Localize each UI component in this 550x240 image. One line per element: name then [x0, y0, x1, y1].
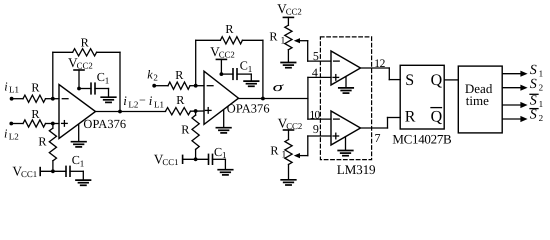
ground [216, 128, 231, 133]
junction [261, 97, 265, 101]
wire [308, 41, 331, 61]
node iL2-iL1 [123, 93, 164, 109]
svg-text:CC1: CC1 [162, 157, 178, 167]
svg-text:5: 5 [313, 49, 319, 63]
wire [12, 98, 23, 100]
svg-text:S: S [530, 94, 537, 109]
node sigma [273, 79, 284, 94]
svg-text:1: 1 [248, 64, 253, 74]
wire [11, 123, 23, 125]
svg-text:σ: σ [273, 79, 284, 94]
svg-text:R: R [175, 68, 184, 82]
flip-flop U4 MC14027B [392, 65, 452, 146]
wiper arrow [294, 38, 308, 43]
svg-text:i: i [4, 79, 8, 93]
supply VCC2 [210, 44, 235, 74]
svg-text:OPA376: OPA376 [83, 117, 126, 131]
svg-text:R: R [181, 123, 190, 137]
wire [79, 88, 91, 90]
junction [194, 84, 198, 88]
svg-text:12: 12 [374, 58, 385, 70]
pin 10 [310, 110, 321, 122]
svg-text:7: 7 [375, 131, 381, 145]
svg-text:C: C [240, 59, 248, 73]
comparator U3b [331, 111, 361, 145]
potentiometer R1 (top) [269, 25, 292, 50]
junction [220, 72, 224, 76]
pin 4 [312, 66, 318, 80]
svg-text:Q: Q [431, 108, 443, 125]
svg-text:k: k [147, 67, 153, 81]
svg-text:L1: L1 [154, 99, 164, 109]
resistor R (interstage) [166, 93, 191, 115]
ground [101, 97, 116, 102]
node k2 [147, 67, 158, 87]
svg-text:4: 4 [312, 66, 318, 80]
supply VCC1 [154, 152, 183, 168]
ground [339, 88, 353, 93]
svg-text:1: 1 [280, 35, 285, 46]
svg-text:L2: L2 [128, 99, 138, 109]
wire [46, 98, 60, 100]
svg-text:R: R [269, 29, 278, 43]
pin 9 [313, 122, 319, 136]
resistor R (k2 input) [168, 68, 190, 89]
output arrow 1 [520, 71, 527, 77]
wire [191, 110, 205, 112]
svg-text:CC2: CC2 [77, 60, 93, 70]
wire [223, 110, 225, 127]
svg-text:R: R [81, 35, 90, 49]
wire [239, 98, 308, 100]
comparator U3a [331, 51, 361, 85]
wire [70, 171, 83, 179]
resistor R (iL2 input) [23, 107, 46, 127]
capacitor C1 (bias 1) [66, 153, 84, 176]
wire [345, 137, 347, 150]
svg-text:S: S [530, 108, 537, 123]
svg-text:C: C [97, 70, 105, 84]
wire [288, 165, 290, 179]
svg-text:C: C [214, 145, 222, 159]
wire [502, 104, 521, 106]
resistor R (iL1 input) [23, 80, 46, 102]
capacitor C1 (bias 2) [209, 145, 227, 164]
wire [195, 149, 197, 159]
wire [96, 111, 166, 113]
wire [52, 161, 54, 172]
pin 5 [313, 49, 319, 63]
wire [287, 50, 289, 62]
node iL2 [4, 122, 19, 142]
wire [502, 87, 521, 89]
junction [51, 169, 55, 173]
svg-text:i: i [123, 93, 127, 108]
svg-text:10: 10 [310, 110, 321, 122]
wire [119, 52, 121, 111]
junction [194, 109, 198, 113]
wire [389, 79, 400, 81]
node S2 bar [530, 108, 543, 124]
svg-text:time: time [466, 93, 489, 108]
svg-text:CC2: CC2 [286, 7, 302, 17]
svg-text:R: R [405, 108, 416, 125]
ground [244, 81, 259, 86]
ground [76, 180, 91, 185]
svg-text:S: S [530, 77, 537, 92]
capacitor C1 (VCC2 bypass 1) [91, 70, 109, 94]
resistor R (bias 1) [38, 128, 56, 161]
capacitor C1 (VCC2 bypass 2) [233, 59, 252, 80]
svg-text:1: 1 [539, 99, 544, 109]
svg-text:1: 1 [539, 69, 544, 79]
wire [308, 76, 331, 78]
svg-text:L2: L2 [9, 132, 19, 142]
wire [78, 124, 80, 141]
wire [183, 158, 209, 160]
junction [51, 122, 55, 126]
wire [307, 77, 309, 119]
ground [281, 180, 296, 185]
resistor R (feedback 1) [53, 35, 120, 56]
wire [46, 123, 60, 125]
supply VCC2 [277, 1, 302, 25]
wire [190, 85, 204, 87]
svg-text:OPA376: OPA376 [227, 102, 270, 116]
svg-text:LM319: LM319 [337, 162, 376, 177]
svg-text:1: 1 [281, 150, 286, 161]
wire [502, 118, 521, 120]
wire [444, 79, 458, 81]
node S1 bar [530, 94, 543, 110]
svg-text:Q: Q [431, 72, 443, 89]
wire [388, 117, 401, 119]
wire [237, 74, 251, 80]
wire [308, 136, 331, 156]
output arrow 2 [520, 85, 527, 91]
svg-text:R: R [31, 107, 40, 121]
wire [95, 89, 109, 97]
svg-text:i: i [4, 126, 8, 140]
svg-text:C: C [72, 153, 80, 167]
svg-text:i: i [149, 93, 153, 108]
svg-text:2: 2 [153, 73, 158, 83]
ground [218, 170, 233, 175]
wire [221, 73, 233, 75]
wire [308, 118, 331, 120]
wire [262, 40, 264, 98]
wire [213, 159, 226, 169]
ground [281, 63, 296, 68]
op-amp U1 OPA376 [59, 85, 126, 139]
ground [72, 142, 87, 147]
node iL1 [4, 79, 19, 100]
wire [52, 52, 54, 98]
output arrow 3 [520, 102, 527, 108]
svg-text:R: R [38, 135, 47, 149]
wiper arrow [294, 153, 308, 158]
resistor R (bias 2) [181, 115, 199, 149]
svg-text:R: R [176, 93, 185, 107]
comparator IC LM319 box [320, 37, 376, 177]
svg-text:S: S [405, 72, 414, 89]
supply VCC1 [12, 164, 40, 180]
output arrow 4 [520, 116, 527, 122]
op-amp U2 OPA376 [204, 71, 270, 124]
supply VCC2 [68, 55, 93, 89]
wire [361, 68, 390, 80]
node S1 [530, 63, 543, 79]
junction [118, 110, 122, 114]
wire [502, 73, 521, 75]
svg-text:2: 2 [539, 113, 544, 123]
svg-text:2: 2 [539, 83, 544, 93]
wire [40, 170, 66, 172]
svg-text:1: 1 [105, 75, 110, 85]
supply VCC2 [278, 116, 303, 140]
svg-text:−: − [139, 93, 146, 107]
potentiometer R1 (bottom) [270, 140, 292, 165]
ground [338, 151, 353, 156]
wire [195, 40, 197, 85]
node S2 [530, 77, 543, 93]
svg-text:CC2: CC2 [219, 50, 235, 60]
junction [77, 87, 81, 91]
wire [52, 124, 54, 129]
svg-text:L1: L1 [9, 85, 19, 95]
wire [345, 77, 347, 88]
svg-text:R: R [225, 22, 234, 36]
pin 12 [374, 58, 385, 70]
svg-text:S: S [530, 63, 537, 78]
wire [154, 85, 168, 87]
svg-text:9: 9 [313, 122, 319, 136]
wire [361, 118, 388, 129]
dead time block [458, 66, 502, 133]
resistor R (feedback 2) [196, 22, 263, 44]
junction [194, 157, 198, 161]
svg-text:R: R [270, 144, 279, 158]
wire [195, 111, 197, 115]
svg-text:CC1: CC1 [21, 169, 37, 179]
svg-text:MC14027B: MC14027B [392, 132, 452, 147]
svg-text:1: 1 [80, 159, 85, 169]
pin 7 [375, 131, 381, 145]
svg-text:R: R [31, 80, 40, 94]
junction [51, 97, 55, 101]
